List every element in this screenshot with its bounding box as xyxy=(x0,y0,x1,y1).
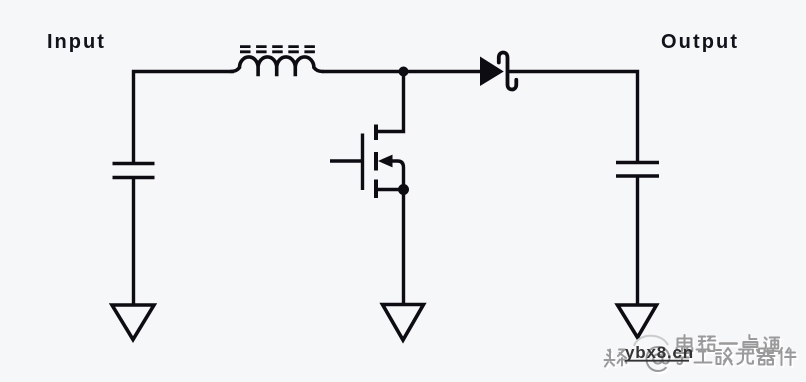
ground (input side) xyxy=(112,305,154,340)
ground (output side) xyxy=(618,305,657,338)
wire: input top rail (corner at x=133.5 to inductor) xyxy=(134,72,235,164)
inductor L1 coil xyxy=(230,57,323,76)
transistor Q1 body arrow xyxy=(378,155,393,168)
ground (switch side) xyxy=(383,305,424,341)
wire: diode cathode to output corner, down to output capacitor xyxy=(509,72,638,163)
svg-text:Input: Input xyxy=(47,31,106,53)
svg-text:ybx8.cn: ybx8.cn xyxy=(625,343,694,362)
capacitor C1 (input) plates xyxy=(113,164,155,178)
svg-text:Output: Output xyxy=(661,31,739,53)
node: source junction dot xyxy=(398,184,409,195)
watermark white emboss layer xyxy=(606,337,797,373)
transistor Q1 channel segment (body) xyxy=(374,152,378,171)
wire: MOSFET source to ground xyxy=(402,190,405,305)
capacitor C2 (output) plates xyxy=(616,163,659,177)
diode D1 Schottky cathode bar with hooks xyxy=(499,52,517,89)
transistor Q1 channel segment (drain) xyxy=(374,125,378,141)
transistor Q1 gate lead wire xyxy=(330,159,363,162)
transistor Q1 channel segment (source) xyxy=(374,180,378,199)
inductor L1 core (double dashed lines) xyxy=(240,47,315,52)
wire: inductor to switch node to diode anode xyxy=(322,70,481,73)
diode D1 anode triangle xyxy=(480,57,504,87)
watermark gray layer xyxy=(605,335,796,371)
transistor Q1 body-to-source link xyxy=(391,161,404,188)
wire: input capacitor to ground xyxy=(132,178,135,306)
watermark dark text "ybx8.cn" with underline xyxy=(625,343,694,362)
wire: output capacitor to ground xyxy=(636,176,639,305)
watermark circle emblem arc xyxy=(634,336,668,346)
transistor Q1 gate bar xyxy=(361,134,364,191)
wire: switch node down to MOSFET drain xyxy=(378,72,404,132)
node: switch-node junction dot xyxy=(399,67,409,77)
transistor Q1 source lead xyxy=(378,188,404,191)
